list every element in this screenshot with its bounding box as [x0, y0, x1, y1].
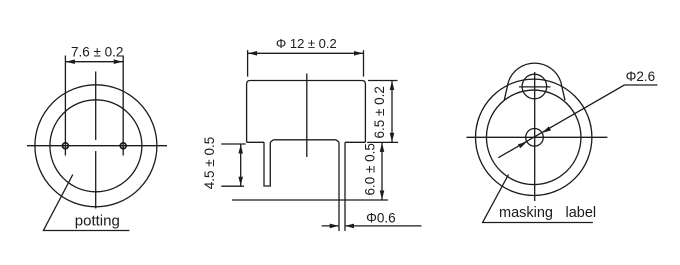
svg-text:7.6 ± 0.2: 7.6 ± 0.2: [71, 44, 123, 59]
arrowhead phi2.6 upper: [541, 126, 551, 134]
svg-text:masking: masking: [499, 205, 553, 221]
dimension line phi0.6 right part: [345, 225, 422, 227]
svg-text:6.5 ± 0.2: 6.5 ± 0.2: [372, 86, 387, 138]
arrowhead 6.5 bottom: [390, 133, 395, 142]
extension line left (phi12 dim): [247, 50, 249, 76]
right pin left edge (side view): [338, 142, 340, 200]
arrowhead phi2.6 lower: [518, 140, 528, 148]
body outline (side view): [247, 81, 366, 143]
right pin extension right (below baseline): [344, 200, 346, 231]
extension line top (6.5 dim): [368, 80, 398, 82]
horizontal centerline (top view): [467, 136, 608, 138]
vertical centerline lower segment (bottom view): [95, 151, 97, 208]
arrowhead left (7.6 dim): [66, 59, 75, 64]
arrowhead 4.5 bottom: [238, 177, 243, 186]
svg-text:4.5 ± 0.5: 4.5 ± 0.5: [202, 137, 217, 189]
tab neck line left: [504, 82, 508, 101]
arrowhead 4.5 top: [238, 145, 243, 154]
bottom chamfer right: [336, 140, 339, 143]
vertical centerline (side view): [306, 74, 308, 158]
svg-text:Φ2.6: Φ2.6: [626, 69, 656, 84]
arrowhead 6.0 top: [380, 143, 385, 152]
PCB baseline: [232, 199, 388, 201]
leader line to potting: [43, 175, 129, 231]
dimension line 4.5: [240, 144, 242, 186]
dimension line 6.5: [391, 81, 393, 143]
right pin right edge (side view): [344, 142, 346, 200]
shared extension line (6.5 bottom / 6.0 top): [367, 141, 398, 143]
svg-text:6.0 ± 0.5: 6.0 ± 0.5: [363, 143, 378, 195]
arrowhead 6.5 top: [390, 81, 395, 90]
center hole phi2.6: [526, 129, 544, 147]
outer circle (case, bottom view): [35, 85, 157, 207]
dimension line phi12: [248, 52, 364, 54]
tab neck line right: [561, 82, 565, 101]
phi2.6 leader line: [498, 85, 657, 158]
bottom recess line: [273, 139, 336, 141]
arrowhead phi12 left: [248, 51, 257, 56]
extension line top (4.5 dim): [221, 143, 245, 145]
extension line right (7.6 dim): [122, 56, 124, 156]
extension line bottom (4.5 dim): [221, 185, 244, 187]
leader line to masking label: [483, 175, 593, 223]
svg-text:label: label: [566, 205, 597, 221]
outer circle (case, top view): [476, 79, 592, 195]
horizontal centerline (bottom view): [27, 145, 167, 147]
arrowhead right (7.6 dim): [114, 59, 123, 64]
arrowhead phi12 right: [354, 51, 363, 56]
svg-text:Φ0.6: Φ0.6: [366, 210, 396, 225]
arrowhead phi0.6 right: [345, 224, 354, 229]
left pin (side view): [264, 142, 270, 186]
arrowhead phi0.6 left: [330, 224, 339, 229]
right pin (bottom view): [120, 143, 126, 149]
dimension line 6.0: [381, 142, 383, 200]
arrowhead 6.0 bottom: [380, 191, 385, 200]
tab hole horizontal crosshair: [519, 86, 551, 88]
bottom chamfer left: [270, 140, 273, 143]
vertical centerline upper segment (bottom view): [95, 72, 97, 140]
svg-text:potting: potting: [75, 213, 120, 230]
dimension line phi0.6 left part: [322, 225, 339, 227]
bottom rim right segment: [345, 141, 365, 143]
svg-text:Φ 12 ± 0.2: Φ 12 ± 0.2: [276, 36, 337, 51]
right pin extension left (below baseline): [338, 200, 340, 231]
bottom rim left segment: [247, 141, 264, 143]
inner circle (masking label edge): [486, 90, 581, 185]
left pin (bottom view): [63, 143, 69, 149]
extension line right (phi12 dim): [363, 50, 365, 76]
inner circle (potting area): [50, 100, 142, 192]
tab hole circle: [522, 74, 547, 99]
extension line left (7.6 dim): [64, 56, 66, 156]
dimension line 7.6: [65, 61, 123, 63]
vertical centerline (top view): [534, 72, 536, 201]
label tab arc: [508, 63, 560, 82]
